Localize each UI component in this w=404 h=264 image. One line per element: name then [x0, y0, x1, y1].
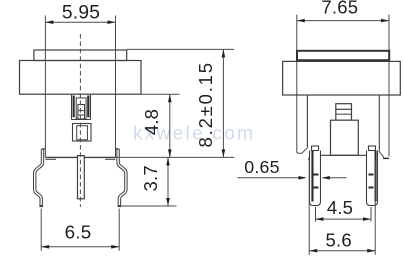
- dim 8.2 ext top: [127, 48, 234, 50]
- svg-text:8.2±0.15: 8.2±0.15: [195, 61, 216, 147]
- left pin tick 2: [314, 187, 319, 189]
- left leg tip cap: [39, 205, 43, 207]
- svg-text:5.6: 5.6: [326, 229, 352, 250]
- dim 5.6 ext right: [374, 160, 376, 255]
- foot bar left: [308, 158, 311, 160]
- dim 7.65 arrow left: [297, 19, 305, 23]
- dim 4.8 arrow up: [168, 94, 172, 102]
- inner flange line left: [306, 95, 308, 148]
- inner shaft: [78, 105, 85, 119]
- dim 4.5 ext left: [315, 207, 317, 222]
- dim 6.5 ext right: [118, 209, 120, 251]
- dim 5.95 arrow left: [45, 20, 53, 24]
- dim 4.8 line: [169, 94, 171, 157]
- foot ridge right: [105, 158, 116, 160]
- dim 3.7 line: [167, 157, 169, 206]
- dim 4.5 ext right: [370, 207, 372, 222]
- foot bar right: [383, 158, 388, 159]
- LED window small rect: [336, 104, 352, 121]
- right pin hatch strip: [375, 151, 377, 202]
- neck bottom edge: [45, 156, 115, 158]
- right leg (S-bend lead): [118, 149, 126, 206]
- svg-text:4.8: 4.8: [141, 109, 162, 135]
- dim 7.65 arrow right: [381, 19, 389, 23]
- body (front view): [283, 61, 401, 95]
- shell/ext line left (7.65 left): [297, 15, 308, 154]
- dim 5.6 arrow right: [367, 249, 375, 253]
- centerline left view (dashed): [79, 34, 81, 207]
- left pin collar: [312, 146, 319, 151]
- shaft tick 2: [78, 114, 85, 116]
- inner plunger: [76, 98, 86, 119]
- dim 3.7 bottom ext: [119, 205, 177, 207]
- dim 5.6 ext left: [308, 160, 310, 255]
- right leg tip cap: [118, 205, 122, 207]
- right pin outline: [367, 151, 378, 206]
- dim 5.6 line: [309, 250, 375, 252]
- cap (button top plate, side view): [34, 50, 127, 61]
- right leg top lip: [116, 148, 119, 150]
- dim 8.2 arrow up: [222, 49, 226, 57]
- left leg top lip: [42, 148, 45, 150]
- dim 6.5 arrow right: [111, 245, 119, 249]
- shell/ext line right (7.65 right): [379, 15, 389, 159]
- shaft tick 1: [78, 110, 85, 112]
- base line between pins: [321, 154, 367, 156]
- cap (front view, thick): [297, 51, 389, 60]
- sleeve hatched wall right: [87, 96, 89, 118]
- dim 8.2 arrow down: [222, 149, 226, 157]
- svg-text:0.65: 0.65: [244, 157, 279, 177]
- lower contact box: [73, 124, 92, 142]
- right pin tick 1: [369, 174, 374, 176]
- plunger sleeve outer walls: [72, 95, 91, 120]
- dim 0.65 leader line: [237, 177, 305, 179]
- left leg (S-bend lead): [35, 149, 43, 206]
- dim 4.8 arrow down: [168, 149, 172, 157]
- left pin outline: [310, 151, 321, 206]
- svg-text:3.7: 3.7: [140, 165, 161, 191]
- center block: [331, 120, 359, 155]
- sleeve hatched wall left: [73, 96, 75, 118]
- dim 6.5 arrow left: [41, 245, 49, 249]
- dim 0.65 arrow right-pointing: [299, 176, 307, 180]
- right pin tick 2: [369, 187, 374, 189]
- svg-text:5.95: 5.95: [62, 3, 100, 24]
- dim 8.2 line: [222, 49, 224, 157]
- dim 4.8 ext top: [141, 93, 179, 95]
- dim 5.95 arrow right: [108, 20, 116, 24]
- dim 4.5 line: [316, 218, 372, 220]
- dim 7.65 line: [297, 20, 389, 22]
- dim 0.65 arrow left-pointing: [322, 176, 330, 180]
- dim 4.5 arrow right: [363, 217, 371, 221]
- extension/neck line right (5.95 right, neck right edge): [115, 16, 117, 158]
- dim 4.5 arrow left: [316, 217, 324, 221]
- svg-text:4.5: 4.5: [327, 197, 353, 218]
- lower contact box inner: [77, 126, 88, 140]
- dim 3.7 arrow down: [166, 198, 170, 206]
- extension/neck line left (5.95 left, neck left edge): [44, 16, 46, 158]
- LED window line 2: [336, 113, 352, 115]
- body (switch base, side view): [20, 61, 142, 95]
- svg-text:6.5: 6.5: [65, 222, 92, 243]
- svg-text:7.65: 7.65: [321, 0, 358, 18]
- shared plane line y157.4 extension: [116, 156, 235, 158]
- right pin collar: [369, 146, 376, 151]
- inner flange line right: [378, 95, 380, 152]
- LED window line 1: [336, 108, 352, 110]
- dim 0.65 second leader: [323, 177, 347, 179]
- center stem: [78, 156, 85, 199]
- dim 5.6 arrow left: [309, 249, 317, 253]
- dim 5.95 line: [45, 21, 115, 23]
- foot ridge left: [45, 158, 56, 160]
- dim 6.5 line: [41, 246, 119, 248]
- left pin tick 1: [314, 174, 319, 176]
- dim 3.7 arrow up: [166, 157, 170, 165]
- left pin hatch strip: [311, 151, 313, 202]
- dim 6.5 ext left: [40, 209, 42, 251]
